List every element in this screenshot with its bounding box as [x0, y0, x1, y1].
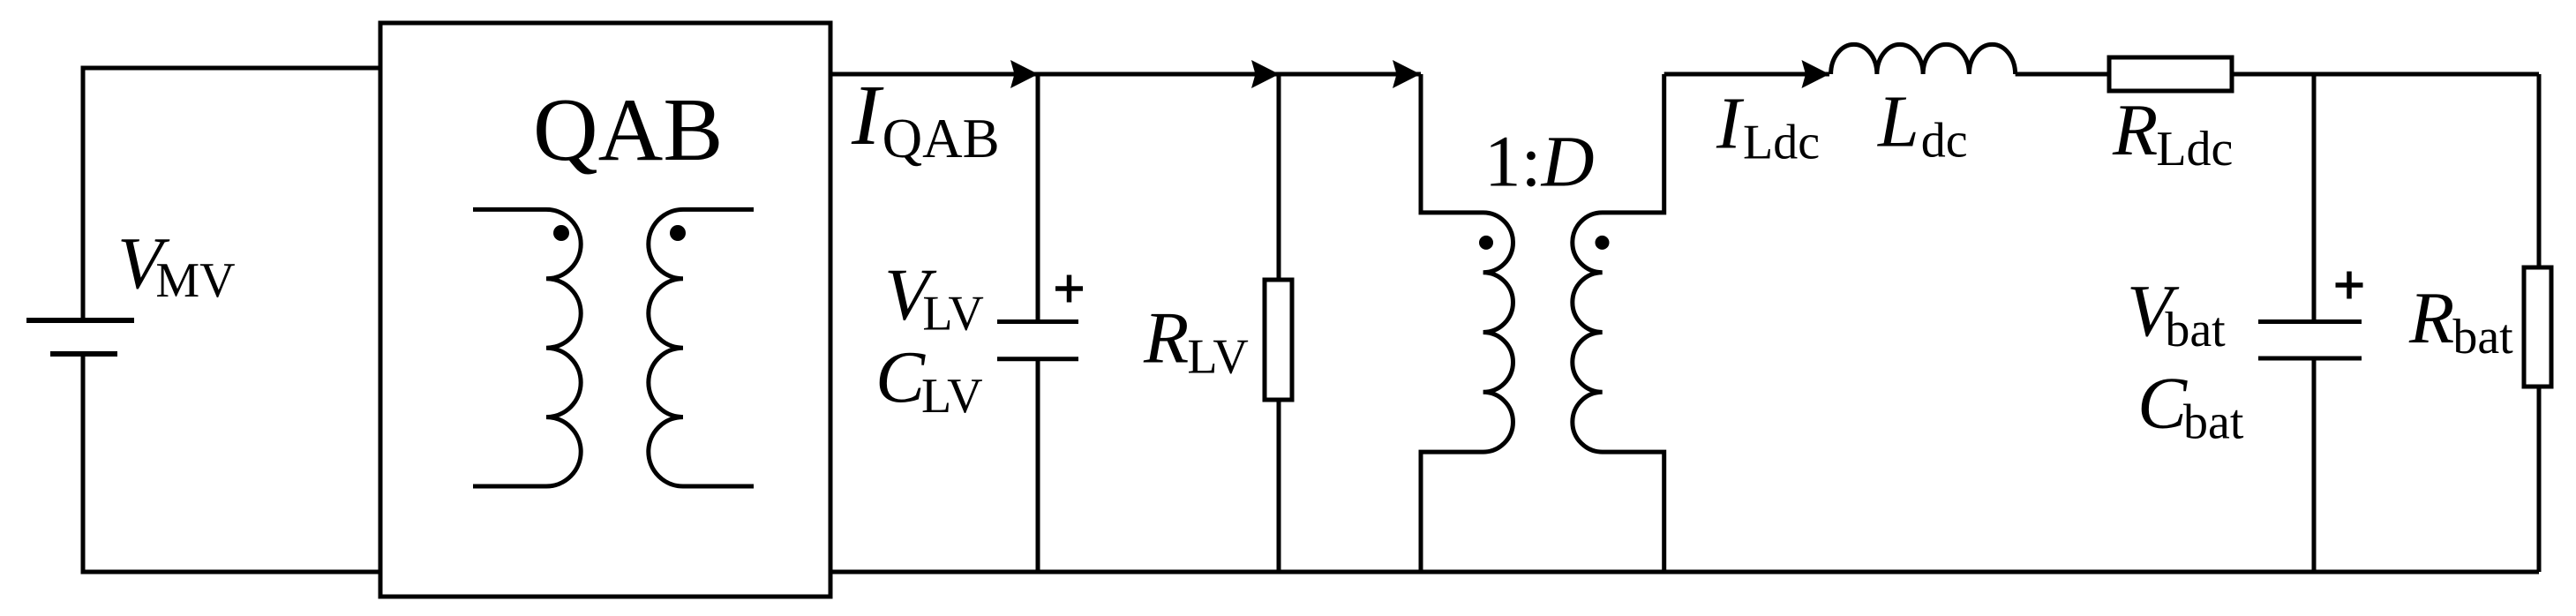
wire: [2232, 72, 2539, 77]
svg-text:1:D: 1:D: [1484, 120, 1595, 201]
bottom wire: [830, 570, 2539, 575]
wire: [2016, 72, 2109, 77]
arrowhead I_QAB: [1010, 60, 1039, 88]
arrowhead node B: [1393, 60, 1421, 88]
QAB transformer secondary winding: [649, 209, 754, 486]
resistor R_bat: [2524, 74, 2551, 572]
wire: [83, 68, 380, 322]
plus sign C_bat: [2336, 272, 2363, 299]
capacitor C_bat: [2258, 74, 2362, 572]
QAB secondary dot: [670, 225, 686, 241]
svg-text:QAB: QAB: [533, 80, 723, 180]
battery V_MV: [26, 320, 134, 354]
wire: [1279, 72, 1421, 77]
resistor R_LV: [1265, 74, 1292, 572]
T1 secondary dot: [1596, 236, 1610, 250]
arrowhead I_Ldc: [1802, 60, 1830, 88]
plus sign C_LV: [1055, 275, 1083, 303]
wire: [1038, 72, 1279, 77]
QAB transformer primary winding: [473, 209, 581, 486]
arrowhead node A: [1251, 60, 1280, 88]
T1 primary dot: [1479, 236, 1493, 250]
transformer T1 secondary (1:D): [1573, 74, 1664, 572]
QAB primary dot: [553, 225, 569, 241]
transformer T1 primary (1:D): [1421, 74, 1513, 572]
wire: [830, 72, 1038, 77]
capacitor C_LV: [997, 74, 1078, 572]
resistor R_Ldc: [2109, 57, 2232, 91]
wire: [83, 352, 380, 572]
QAB converter box U1: [380, 23, 830, 597]
wire: [1664, 72, 1829, 77]
inductor L_dc: [1831, 44, 2016, 74]
